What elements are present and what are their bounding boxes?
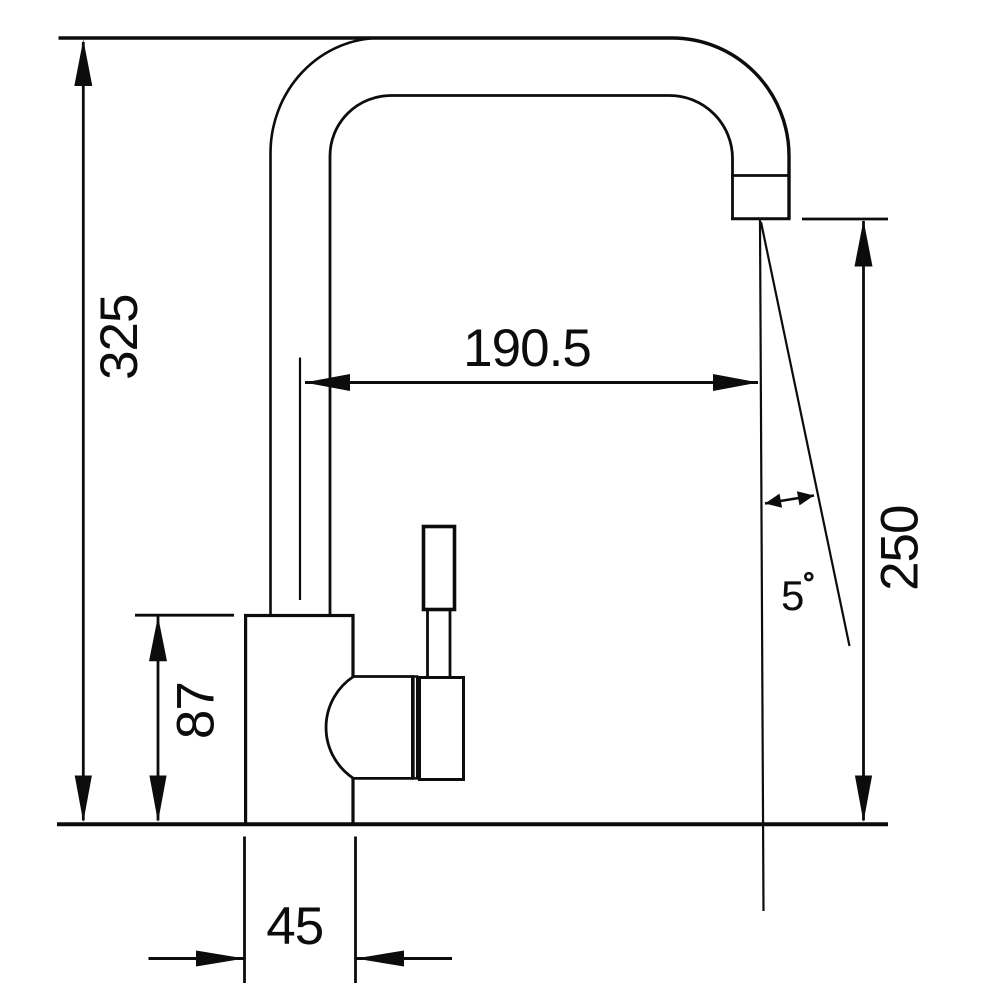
svg-text:250: 250 <box>870 505 929 590</box>
svg-text:87: 87 <box>166 682 225 739</box>
svg-text:5: 5 <box>781 572 804 619</box>
svg-text:190.5: 190.5 <box>463 319 591 378</box>
svg-text:325: 325 <box>90 294 149 379</box>
svg-text:45: 45 <box>266 897 323 956</box>
